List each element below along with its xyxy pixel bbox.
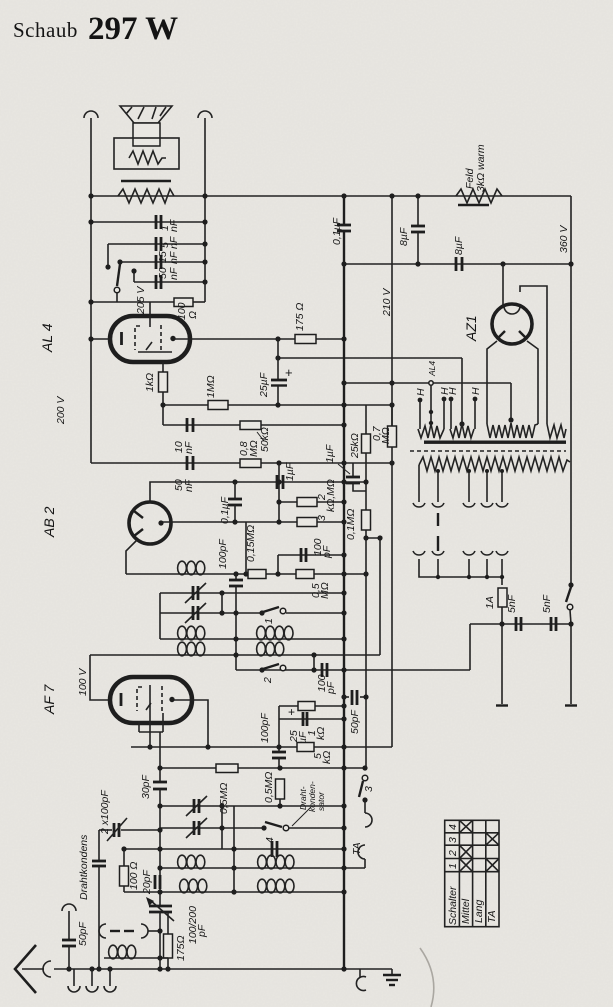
resistor 175 Ohm antenna — [164, 912, 188, 969]
terminal arc left top — [84, 111, 98, 118]
svg-text:Ω: Ω — [187, 311, 199, 319]
capacitor 0,1uF AB2 — [219, 482, 242, 524]
svg-text:+: + — [288, 705, 295, 719]
coil L1 — [178, 561, 205, 575]
terminal arc right top — [198, 111, 212, 118]
svg-text:+: + — [285, 365, 293, 380]
antenna capacitor 50pF — [62, 904, 89, 969]
svg-text:pF: pF — [325, 681, 337, 695]
wire y358 to heater winding — [275, 355, 464, 426]
capacitor Drahtkondens — [78, 830, 106, 972]
TA pickup jacks — [351, 800, 372, 868]
heater taps H — [415, 387, 482, 429]
svg-text:0,5MΩ: 0,5MΩ — [263, 772, 275, 803]
svg-text:2 x100pF: 2 x100pF — [99, 790, 111, 835]
svg-text:MΩ: MΩ — [319, 582, 331, 599]
label Drahtkondensator — [298, 781, 326, 812]
svg-text:100pF: 100pF — [217, 539, 229, 569]
tone cap 50nF row — [131, 267, 207, 289]
svg-text:AL4: AL4 — [427, 361, 437, 377]
svg-text:H: H — [470, 387, 482, 395]
coil row y655 — [90, 642, 380, 657]
transformer HV winding — [487, 423, 538, 438]
capacitor 8uF first — [398, 193, 425, 264]
wire left bus 200V — [90, 118, 92, 463]
wire y849 with series cap — [121, 841, 346, 857]
trimmer row y593 — [160, 583, 347, 639]
cathode resistor 1 kOhm — [144, 362, 168, 425]
transformer winding right — [547, 424, 566, 438]
svg-text:kΩ: kΩ — [321, 751, 333, 764]
svg-text:0,1µF: 0,1µF — [219, 496, 231, 524]
mains switch — [566, 582, 574, 704]
svg-text:200 V: 200 V — [55, 396, 67, 425]
ground rail y969 — [54, 966, 392, 971]
switch table — [445, 820, 499, 926]
svg-text:360 V: 360 V — [558, 225, 570, 253]
svg-text:AB 2: AB 2 — [41, 506, 57, 538]
svg-text:175Ω: 175Ω — [175, 935, 187, 961]
svg-text:8µF: 8µF — [453, 236, 465, 255]
title Schaub 297 W — [13, 11, 178, 47]
AF7 anode wire — [174, 700, 208, 747]
svg-text:4: 4 — [447, 824, 459, 830]
capacitor 50pF TA branch — [341, 538, 368, 768]
wire x392 down — [391, 463, 393, 747]
tube AB2 — [126, 502, 171, 574]
voltage selector plug — [437, 513, 439, 551]
svg-text:Drahtkondens: Drahtkondens — [78, 834, 90, 900]
HT rail y196 — [91, 195, 571, 197]
antenna coil — [104, 945, 168, 960]
svg-text:AZ1: AZ1 — [463, 315, 479, 342]
svg-text:1µF: 1µF — [284, 462, 296, 481]
tube AF7 — [90, 655, 192, 723]
svg-text:100pF: 100pF — [259, 713, 271, 743]
svg-text:MΩ: MΩ — [380, 427, 392, 444]
tube AZ1 — [487, 264, 547, 424]
wire y747 with 5 kOhm — [131, 743, 392, 765]
svg-text:1µF: 1µF — [324, 444, 336, 463]
AF7 base pins — [139, 685, 163, 782]
wire AB2 anode drop — [245, 522, 247, 574]
heater tap AL4 — [427, 361, 437, 426]
svg-text:50kΩ: 50kΩ — [259, 427, 271, 452]
tone cap 5nF row — [105, 236, 207, 269]
tap sockets row 2 — [413, 551, 508, 555]
switch 3 — [359, 775, 375, 802]
trimmer row y828 with switch 4 — [160, 807, 347, 843]
wire x380 down to chassis — [379, 538, 381, 655]
svg-text:nF: nF — [183, 479, 195, 492]
svg-text:2: 2 — [262, 677, 274, 684]
resistor 0,7 MOhm — [371, 405, 397, 463]
speaker LS — [120, 106, 172, 146]
transformer heater winding 1 — [418, 424, 444, 438]
resistor Feld 3kOhm warm — [456, 144, 502, 205]
transformer primary winding — [419, 457, 570, 471]
tone cap 1nF row — [88, 215, 207, 232]
resistor 25 kOhm — [349, 405, 371, 510]
svg-text:8µF: 8µF — [398, 227, 410, 246]
coil row y892 — [124, 879, 347, 894]
resistor 100 Ohm vertical — [120, 849, 141, 892]
svg-text:2: 2 — [447, 850, 459, 857]
wire y425 with 10nF and 50kOhm — [163, 418, 347, 454]
wire y463 with 50nF and 0,8 MOhm — [91, 440, 395, 492]
resistor 3 kOhm / anode wire AB2 — [161, 515, 347, 527]
chassis wire y670 — [236, 624, 470, 673]
wire y624 with 5nF caps — [470, 594, 574, 631]
capacitor 100pF grid — [217, 539, 243, 670]
svg-text:AF 7: AF 7 — [41, 683, 57, 715]
wire y264 with series 8uF — [341, 236, 573, 271]
capacitor 100pF AF7 anode — [259, 713, 286, 768]
svg-text:1: 1 — [447, 863, 459, 869]
svg-text:kΩ,MΩ: kΩ,MΩ — [325, 479, 337, 512]
svg-text:TA: TA — [486, 910, 498, 923]
node (91,196) — [88, 193, 93, 198]
antenna coupling coil dashed — [99, 924, 163, 938]
svg-text:100 V: 100 V — [77, 668, 89, 696]
svg-text:AL 4: AL 4 — [39, 323, 55, 353]
tube AL4 — [88, 302, 190, 362]
svg-text:nF: nF — [168, 219, 180, 232]
electrolytic 25uF — [258, 339, 293, 405]
fuse 1A — [484, 588, 507, 624]
svg-text:H: H — [415, 388, 427, 396]
svg-text:kΩ: kΩ — [315, 727, 327, 740]
coil row y872 with TA join — [157, 855, 365, 870]
svg-text:nF: nF — [183, 441, 195, 454]
svg-text:Schaub: Schaub — [13, 18, 78, 42]
svg-text:25kΩ: 25kΩ — [349, 433, 361, 459]
svg-text:MΩ: MΩ — [248, 440, 260, 457]
svg-text:50pF: 50pF — [77, 921, 89, 946]
transformer core — [424, 441, 566, 444]
capacitor 20pF — [141, 869, 160, 895]
transformer heater winding 2 — [450, 424, 474, 438]
wire y383 AL4 heater feed — [341, 380, 513, 422]
main HT bus x344 with series 0,1uF — [331, 193, 351, 969]
svg-text:4: 4 — [264, 837, 276, 843]
mains join wire y577 — [419, 559, 504, 585]
svg-text:TA: TA — [351, 842, 363, 855]
svg-text:nF: nF — [168, 236, 180, 249]
svg-text:50pF: 50pF — [349, 709, 361, 734]
svg-text:sator: sator — [316, 791, 326, 811]
svg-text:5nF: 5nF — [541, 594, 553, 613]
switch 2 and 100pF on y670 — [259, 655, 337, 695]
svg-text:297 W: 297 W — [88, 11, 178, 47]
svg-text:3: 3 — [316, 515, 328, 521]
svg-text:25µF: 25µF — [258, 372, 270, 398]
svg-text:100 Ω: 100 Ω — [128, 862, 140, 890]
wire 210V x392 — [391, 196, 393, 426]
svg-text:H: H — [447, 387, 459, 395]
right corner wire 360V — [570, 196, 572, 585]
node (205,196) — [202, 193, 207, 198]
svg-text:175 Ω: 175 Ω — [294, 303, 306, 331]
trimmer 2x100pF — [99, 790, 163, 841]
capacitor 1uF with pointer — [324, 444, 366, 491]
mains lead terminals — [496, 624, 577, 706]
tone switch — [114, 264, 120, 302]
output transformer box — [114, 138, 179, 169]
wire y555 with 100pF — [278, 538, 347, 574]
core bar — [121, 180, 171, 182]
svg-text:20pF: 20pF — [141, 869, 153, 895]
svg-text:0,1µF: 0,1µF — [331, 217, 343, 245]
svg-text:0,5MΩ: 0,5MΩ — [218, 783, 230, 814]
svg-text:Schalter: Schalter — [447, 886, 459, 925]
trimmer row y613 with switch 1 — [160, 603, 347, 624]
transformer primary separator — [410, 450, 566, 452]
svg-text:205 V: 205 V — [135, 286, 147, 315]
grid cap wire y482 with series 1uF — [150, 462, 369, 502]
svg-text:30pF: 30pF — [140, 774, 152, 799]
svg-text:1A: 1A — [484, 596, 496, 609]
ground symbol — [383, 969, 401, 985]
RC 25uF 1kOhm anode — [279, 702, 347, 745]
wire y768 with 0,5MOhm — [157, 764, 367, 814]
grid leak wire y405 with 1 MOhm — [160, 375, 394, 409]
tap sockets row 1 — [413, 503, 508, 507]
svg-text:1MΩ: 1MΩ — [205, 375, 217, 398]
coil row y639 — [160, 626, 347, 641]
svg-text:Lang: Lang — [473, 899, 485, 923]
primary taps — [419, 465, 504, 502]
chassis terminal arc — [356, 969, 366, 990]
svg-text:3kΩ warm: 3kΩ warm — [475, 144, 487, 192]
variable cap 100/200 pF — [146, 897, 208, 969]
svg-text:0,1MΩ: 0,1MΩ — [345, 509, 357, 540]
svg-text:nF: nF — [168, 251, 180, 264]
svg-text:Mittel: Mittel — [460, 898, 472, 924]
page curl mark — [420, 948, 434, 1007]
wire right top bus — [204, 118, 206, 282]
trimmer row y806 — [157, 796, 346, 849]
svg-text:3: 3 — [363, 786, 375, 792]
antenna symbol — [15, 945, 51, 993]
resistor 0,5MOhm vertical — [263, 772, 285, 806]
grid wire y302 with resistor 100 Ohm — [88, 282, 205, 320]
svg-text:pF: pF — [321, 545, 333, 559]
svg-text:1: 1 — [263, 618, 275, 624]
svg-text:pF: pF — [196, 924, 208, 938]
svg-text:5nF: 5nF — [506, 594, 518, 613]
svg-text:3: 3 — [447, 837, 459, 843]
capacitor 30pF grid — [140, 774, 167, 906]
svg-text:1kΩ: 1kΩ — [144, 373, 156, 392]
tone cap 15nF row — [117, 251, 207, 269]
earth sockets — [68, 969, 116, 992]
resistor 0,1 MOhm — [345, 509, 383, 541]
resistor 2 MOhm — [276, 463, 346, 522]
anode wire y339 with resistor 175 Ohm — [174, 303, 347, 344]
IF grid wire y574 with 0,15MOhm and 0,5MOhm — [126, 525, 369, 599]
field winding resistor on 196 rail — [118, 189, 174, 203]
wire x234 band switch — [231, 806, 236, 895]
svg-text:nF: nF — [168, 267, 180, 280]
